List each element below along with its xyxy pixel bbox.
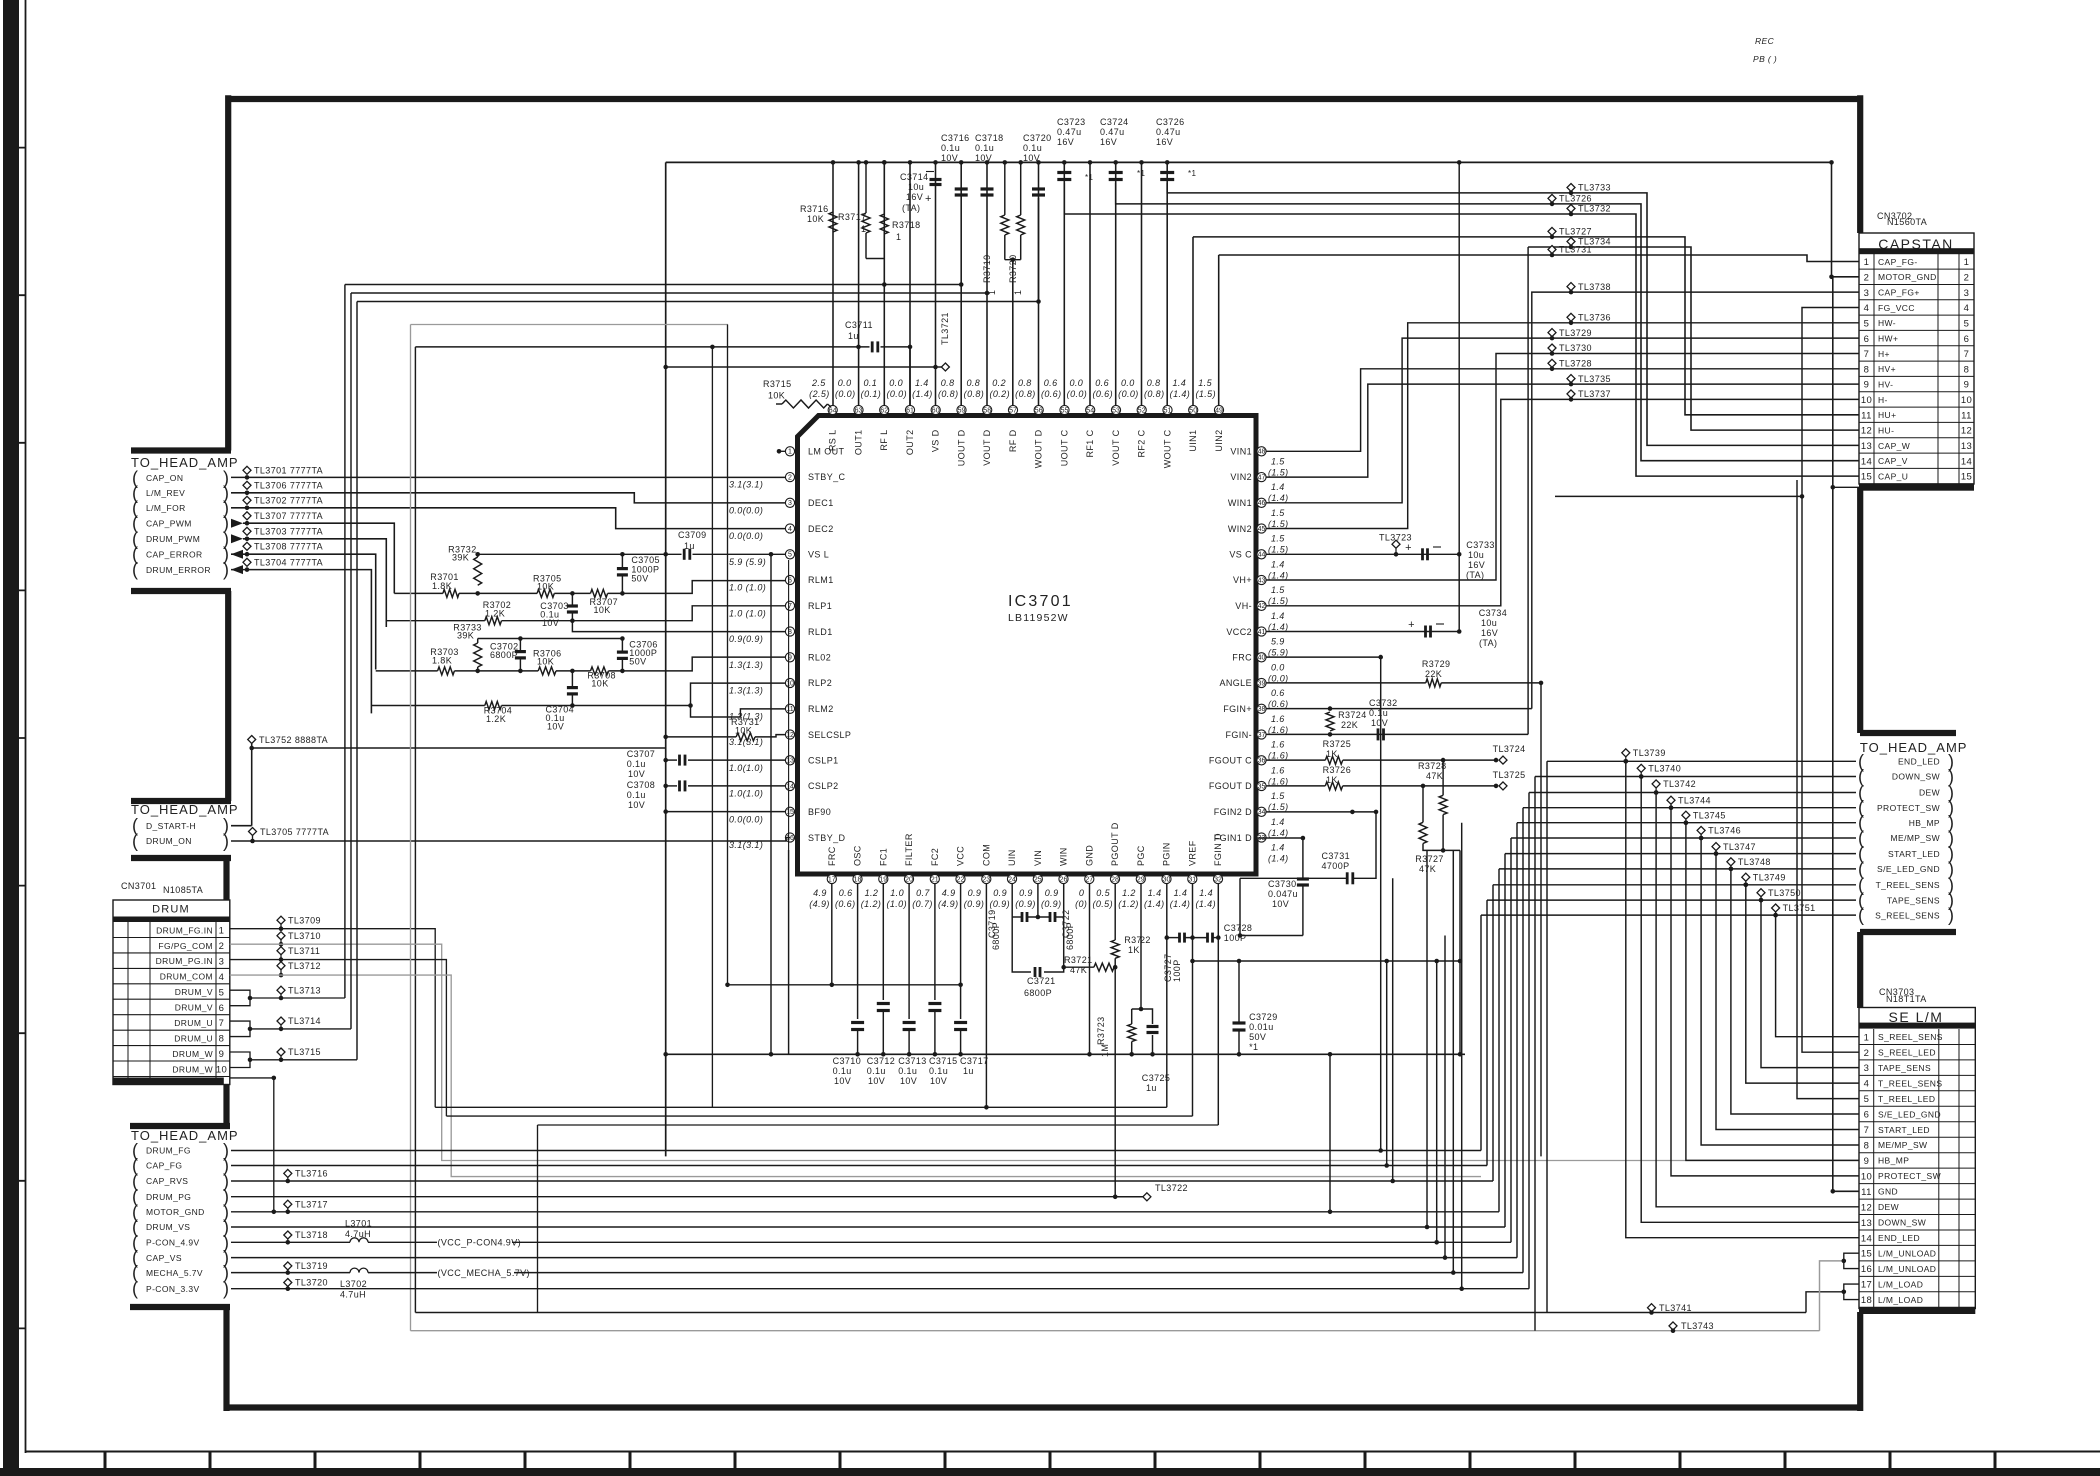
test point TL3707 xyxy=(243,512,251,520)
svg-text:5.9 (5.9): 5.9 (5.9) xyxy=(729,557,766,567)
test point TL3745 xyxy=(1682,811,1690,819)
connector CAPSTAN title bar xyxy=(1859,248,1974,254)
main border stub above TO_HEAD_AMP 4 xyxy=(1860,730,1956,736)
svg-text:1: 1 xyxy=(1864,257,1870,268)
svg-text:10: 10 xyxy=(786,680,794,687)
connector DRUM row 8 DRUM_U xyxy=(113,1045,230,1047)
wire pin 58 column to top bus xyxy=(986,162,988,405)
svg-text:4: 4 xyxy=(1864,1079,1870,1090)
svg-text:RL02: RL02 xyxy=(808,653,831,663)
wire C3731 left drop xyxy=(1239,878,1241,935)
svg-text:CAP_FG: CAP_FG xyxy=(146,1161,182,1171)
wire supply riser C3733 C3734 xyxy=(1458,162,1460,631)
svg-text:56: 56 xyxy=(1035,407,1043,414)
IC3701 pin 58 VOUT D xyxy=(983,405,992,414)
svg-text:50V: 50V xyxy=(629,657,646,667)
svg-text:12: 12 xyxy=(1961,426,1972,437)
svg-text:1u: 1u xyxy=(848,331,859,341)
wire R3723 C3725 bracket xyxy=(1132,1009,1153,1024)
svg-text:2: 2 xyxy=(1864,272,1870,283)
left ruler tick 2 xyxy=(3,294,26,296)
svg-text:1.5: 1.5 xyxy=(1271,534,1285,544)
IC3701 pin 11 RLM2 xyxy=(785,704,794,713)
svg-text:*1: *1 xyxy=(1085,173,1094,182)
test point TL3740 xyxy=(1637,764,1645,772)
svg-text:S_REEL_SENS: S_REEL_SENS xyxy=(1878,1032,1943,1042)
svg-text:TL3723: TL3723 xyxy=(1379,533,1412,543)
svg-text:(0.6): (0.6) xyxy=(1092,389,1113,399)
svg-text:DRUM_V: DRUM_V xyxy=(175,1003,213,1013)
svg-text:4.7uH: 4.7uH xyxy=(345,1229,371,1239)
svg-text:IC3701: IC3701 xyxy=(1008,593,1073,610)
svg-text:1.4: 1.4 xyxy=(1148,888,1162,898)
svg-text:SELCSLP: SELCSLP xyxy=(808,730,851,740)
wire DEW left drop xyxy=(1528,793,1530,1289)
svg-text:10V: 10V xyxy=(547,721,564,731)
svg-text:DRUM_ON: DRUM_ON xyxy=(146,836,192,846)
wire VS L net row xyxy=(478,553,682,555)
resistor R3715 10K xyxy=(782,400,828,408)
svg-text:MOTOR_GND: MOTOR_GND xyxy=(1878,272,1937,282)
test point TL3749 xyxy=(1742,873,1750,881)
connector SE L/M row 9 HB_MP xyxy=(1859,1167,1975,1169)
wire START_LED row run xyxy=(1505,853,1856,855)
svg-text:C3730: C3730 xyxy=(1268,879,1297,889)
wire P-CON_4.9V run with L3701 xyxy=(231,1241,350,1243)
svg-text:GND: GND xyxy=(1084,845,1094,866)
test point TL3746 xyxy=(1697,826,1705,834)
svg-text:16V: 16V xyxy=(1156,137,1173,147)
svg-text:(1.6): (1.6) xyxy=(1268,751,1289,761)
svg-text:*1: *1 xyxy=(1188,169,1197,178)
svg-text:(1.4): (1.4) xyxy=(1268,622,1289,632)
svg-text:TL3745: TL3745 xyxy=(1693,810,1726,820)
wire pin28 column xyxy=(1114,884,1116,940)
svg-text:4: 4 xyxy=(219,972,225,983)
test point TL3736 xyxy=(1567,313,1575,321)
svg-text:TL3718: TL3718 xyxy=(295,1230,328,1240)
svg-text:CAP_VS: CAP_VS xyxy=(146,1253,182,1263)
svg-text:C3705: C3705 xyxy=(631,555,660,565)
svg-text:50V: 50V xyxy=(1249,1032,1266,1042)
svg-text:3: 3 xyxy=(1864,1063,1870,1074)
svg-text:TL3719: TL3719 xyxy=(295,1261,328,1271)
wire top bus right drop to MOTOR_GND xyxy=(1831,162,1833,276)
wire T_REEL_SENS left drop xyxy=(1492,885,1494,1181)
wire pin 59 column to top bus xyxy=(960,162,962,405)
svg-text:T_REEL_LED: T_REEL_LED xyxy=(1878,1094,1935,1104)
resistor R3705 10K xyxy=(537,589,554,597)
wire DRUM U net column xyxy=(350,293,352,1029)
svg-text:GND: GND xyxy=(1878,1187,1898,1197)
svg-text:16V: 16V xyxy=(906,192,923,202)
svg-text:HB_MP: HB_MP xyxy=(1878,1156,1909,1166)
IC3701 pin 56 WOUT D xyxy=(1034,405,1043,414)
svg-text:1.0 (1.0): 1.0 (1.0) xyxy=(729,583,766,593)
svg-text:(1.5): (1.5) xyxy=(1268,519,1289,529)
svg-text:16V: 16V xyxy=(1057,137,1074,147)
IC3701 pin 63 OUT1 xyxy=(854,405,863,414)
IC3701 pin 25 VIN xyxy=(1033,874,1042,883)
svg-text:+: + xyxy=(925,193,932,205)
svg-text:DRUM_COM: DRUM_COM xyxy=(160,972,213,982)
resistor R3716 10K xyxy=(829,212,837,232)
connector SE L/M row 3 TAPE_SENS xyxy=(1859,1074,1975,1076)
wire pin33 FGIN1 D tap xyxy=(1301,836,1306,841)
wire R3717 R3718 join xyxy=(866,258,884,260)
main border right edge lower xyxy=(1857,1312,1863,1411)
svg-text:TL3751: TL3751 xyxy=(1783,903,1816,913)
svg-text:LB11952W: LB11952W xyxy=(1008,612,1069,624)
connector CAPSTAN row 2 MOTOR_GND xyxy=(1859,284,1974,286)
wire DRUM_PG long run to TL3722 xyxy=(231,1196,1143,1198)
svg-text:54: 54 xyxy=(1086,407,1094,414)
svg-text:RF1 C: RF1 C xyxy=(1085,429,1095,457)
wire DRUM row3 net xyxy=(230,960,447,1117)
svg-text:FRC: FRC xyxy=(827,846,837,866)
IC3701 pin 40 FRC xyxy=(1257,653,1266,662)
svg-text:FGIN2 D: FGIN2 D xyxy=(1214,807,1252,817)
svg-text:47K: 47K xyxy=(1419,864,1436,874)
svg-text:PGC: PGC xyxy=(1136,845,1146,866)
resistor R3725 1K xyxy=(1325,756,1342,764)
wire pin 63 column to top bus xyxy=(858,162,860,405)
test point TL3723 xyxy=(1392,540,1400,548)
svg-text:+: + xyxy=(1405,542,1412,554)
svg-text:7: 7 xyxy=(1964,349,1970,360)
left ruler tick 1 xyxy=(3,147,26,149)
svg-text:10K: 10K xyxy=(594,605,611,615)
svg-text:TL3743: TL3743 xyxy=(1681,1321,1714,1331)
svg-text:(TA): (TA) xyxy=(902,203,920,213)
svg-text:8: 8 xyxy=(1864,364,1870,375)
resistor R3720 1 xyxy=(1017,215,1025,235)
wire R3721 row xyxy=(1064,966,1094,968)
svg-text:(0.9): (0.9) xyxy=(964,899,985,909)
svg-text:VIN1: VIN1 xyxy=(1230,447,1252,457)
wire MECHA_5.7V run with L3702 xyxy=(231,1272,350,1274)
svg-text:TL3742: TL3742 xyxy=(1663,779,1696,789)
svg-text:59: 59 xyxy=(958,407,966,414)
test point TL3747 xyxy=(1712,843,1720,851)
svg-text:(1.4): (1.4) xyxy=(1268,854,1289,864)
wire CAP_FG- net pin49 to CAPSTAN 1 xyxy=(1219,255,1859,262)
svg-text:6800P: 6800P xyxy=(490,650,518,660)
wire DRUM W net link xyxy=(281,1059,357,1061)
svg-text:WIN1: WIN1 xyxy=(1228,498,1252,508)
svg-text:18: 18 xyxy=(854,876,862,883)
svg-text:4.9: 4.9 xyxy=(813,888,827,898)
test point TL3734 xyxy=(1567,238,1575,246)
svg-text:*1: *1 xyxy=(1249,1042,1258,1052)
IC3701 pin 12 SELCSLP xyxy=(785,730,794,739)
IC3701 pin 43 VH+ xyxy=(1257,575,1266,584)
svg-text:0.7: 0.7 xyxy=(916,888,930,898)
test point TL3732 xyxy=(1567,205,1575,213)
svg-text:FGOUT C: FGOUT C xyxy=(1209,756,1252,766)
test point TL3715 xyxy=(277,1048,285,1056)
svg-text:DRUM_U: DRUM_U xyxy=(174,1034,213,1044)
svg-text:TL3730: TL3730 xyxy=(1559,343,1592,353)
svg-text:63: 63 xyxy=(855,407,863,414)
resistor R3707 10K xyxy=(591,589,608,597)
wire C3705 column xyxy=(621,554,623,568)
svg-text:VS L: VS L xyxy=(808,550,829,560)
test point TL3703 xyxy=(243,527,251,535)
bottom ruler tick 10 xyxy=(1049,1452,1052,1470)
svg-text:0.047u: 0.047u xyxy=(1268,889,1298,899)
wire DRUM_FG long run xyxy=(231,1150,1481,1152)
svg-text:): ) xyxy=(1948,905,1954,925)
svg-text:1.6: 1.6 xyxy=(1271,740,1285,750)
svg-text:1.2K: 1.2K xyxy=(486,714,506,724)
svg-text:1K: 1K xyxy=(1128,945,1140,955)
svg-text:1.5: 1.5 xyxy=(1271,791,1285,801)
main border stub above TO_HEAD_AMP 1 xyxy=(131,447,231,453)
svg-text:(1.4): (1.4) xyxy=(1268,570,1289,580)
svg-text:10V: 10V xyxy=(941,153,958,163)
IC3701 pin 5 VS L xyxy=(785,550,794,559)
svg-text:TL3705 7777TA: TL3705 7777TA xyxy=(260,827,329,837)
capacitor C3722 6800P xyxy=(1049,912,1052,922)
svg-text:10V: 10V xyxy=(1371,718,1388,728)
svg-text:1.2: 1.2 xyxy=(1122,888,1136,898)
IC3701 pin 16 STBY_D xyxy=(785,833,794,842)
svg-text:VCC2: VCC2 xyxy=(1226,627,1252,637)
connector SE L/M row 13 DOWN_SW xyxy=(1859,1229,1975,1231)
wire HB_MP left drop xyxy=(1516,823,1518,1258)
svg-text:10: 10 xyxy=(1861,395,1872,406)
test point TL3712 xyxy=(277,962,285,970)
svg-text:TL3708 7777TA: TL3708 7777TA xyxy=(254,541,323,551)
resistor R3727 47K xyxy=(1419,822,1427,843)
connector DRUM bottom bar xyxy=(113,1078,224,1085)
wire pin61 column branch xyxy=(909,347,911,406)
capacitor C3706 1000P 50V xyxy=(617,650,628,653)
svg-text:0.9: 0.9 xyxy=(993,888,1007,898)
svg-text:0.1u: 0.1u xyxy=(929,1066,948,1076)
bottom ruler tick 8 xyxy=(839,1452,842,1470)
inductor L3701 4.7uH xyxy=(350,1238,368,1243)
IC3701 pin 29 PGC xyxy=(1136,874,1145,883)
connector SE L/M row 16 L/M_UNLOAD xyxy=(1859,1275,1975,1277)
IC3701 pin 10 RLP2 xyxy=(785,678,794,687)
svg-text:(1.5): (1.5) xyxy=(1268,545,1289,555)
svg-text:17: 17 xyxy=(1861,1280,1872,1291)
IC3701 pin 61 OUT2 xyxy=(905,405,914,414)
connector SE L/M column lines xyxy=(1873,1029,1875,1307)
svg-text:UIN1: UIN1 xyxy=(1188,430,1198,452)
test point TL3738 xyxy=(1567,283,1575,291)
svg-text:21: 21 xyxy=(931,876,939,883)
svg-text:FGOUT D: FGOUT D xyxy=(1209,781,1252,791)
svg-text:DRUM_PG: DRUM_PG xyxy=(146,1192,191,1202)
main border stub below TO_HEAD_AMP 1 xyxy=(131,588,231,594)
svg-text:0.0: 0.0 xyxy=(889,378,903,388)
IC3701 pin 35 FGOUT D xyxy=(1257,781,1266,790)
svg-text:(1.5): (1.5) xyxy=(1268,596,1289,606)
svg-text:TL3741: TL3741 xyxy=(1659,1303,1692,1313)
svg-text:26: 26 xyxy=(1060,876,1068,883)
wire C3703 to pin8 xyxy=(572,621,785,632)
svg-text:(0.0): (0.0) xyxy=(1067,389,1088,399)
capacitor C3704 0.1u 10V xyxy=(567,686,578,689)
wire pin 55 column to top bus xyxy=(1063,162,1065,405)
wire DOWN_SW left drop xyxy=(1534,777,1536,1331)
wire pin 50 column to HU+ wire xyxy=(1192,237,1194,406)
connector CAPSTAN column lines xyxy=(1873,254,1875,484)
connector CAPSTAN row 13 CAP_W xyxy=(1859,452,1974,454)
svg-text:1.4: 1.4 xyxy=(1271,559,1285,569)
left ruler tick 4 xyxy=(3,589,26,591)
svg-text:R3717: R3717 xyxy=(838,212,867,222)
wire pin27 column to bus xyxy=(1089,884,1091,1055)
test point TL3724 xyxy=(1499,756,1507,764)
svg-text:TL3717: TL3717 xyxy=(295,1199,328,1209)
test point TL3729 xyxy=(1548,329,1556,337)
svg-text:TL3712: TL3712 xyxy=(288,961,321,971)
IC3701 pin 37 FGIN- xyxy=(1257,730,1266,739)
svg-text:C3734: C3734 xyxy=(1479,608,1508,618)
resistor R3722 1K xyxy=(1111,940,1119,958)
IC3701 pin 27 GND xyxy=(1085,874,1094,883)
wire R3704 row xyxy=(371,705,484,707)
wire gray top run xyxy=(411,324,729,326)
svg-text:DEC1: DEC1 xyxy=(808,498,834,508)
connector SE L/M row 4 T_REEL_SENS xyxy=(1859,1090,1975,1092)
bottom ruler tick 1 xyxy=(104,1452,107,1470)
svg-text:1: 1 xyxy=(861,224,866,234)
svg-text:61: 61 xyxy=(906,407,914,414)
capacitor C3718 0.1u 10V xyxy=(981,187,994,190)
test point TL3718 xyxy=(284,1231,292,1239)
wire gray riser x411 xyxy=(410,325,412,1331)
wire C3731 row xyxy=(1240,877,1347,879)
svg-text:(0.8): (0.8) xyxy=(1015,389,1036,399)
bottom ruler tick 2 xyxy=(209,1452,212,1470)
svg-text:(0.8): (0.8) xyxy=(938,389,959,399)
arrow CAP_PWM xyxy=(231,519,243,528)
svg-text:0.1u: 0.1u xyxy=(898,1066,917,1076)
svg-text:TL3733: TL3733 xyxy=(1578,183,1611,193)
wire S/E_LED_GND row run xyxy=(1499,868,1856,870)
wire CAP_VS long run xyxy=(231,1257,1517,1259)
IC3701 pin 55 UOUT C xyxy=(1060,405,1069,414)
svg-text:1.6: 1.6 xyxy=(1271,765,1285,775)
svg-text:(0.1): (0.1) xyxy=(861,389,882,399)
svg-text:(4.9): (4.9) xyxy=(809,899,830,909)
svg-text:R3727: R3727 xyxy=(1415,854,1444,864)
IC3701 pin 53 VOUT C xyxy=(1111,405,1120,414)
resistor R3704 1.2K xyxy=(485,702,502,710)
svg-text:TAPE_SENS: TAPE_SENS xyxy=(1887,895,1940,905)
IC3701 pin 41 VCC2 xyxy=(1257,627,1266,636)
svg-text:1.8K: 1.8K xyxy=(432,581,452,591)
IC3701 pin 38 FGIN+ xyxy=(1257,704,1266,713)
svg-text:1.3(1.3): 1.3(1.3) xyxy=(729,660,763,670)
svg-text:VOUT D: VOUT D xyxy=(982,429,992,465)
wire C3702 column xyxy=(519,639,521,652)
connector CAPSTAN row 11 HU+ xyxy=(1859,421,1974,423)
wire C3703 column xyxy=(571,593,573,606)
wire END_LED row run xyxy=(1547,760,1856,762)
svg-text:10u: 10u xyxy=(1481,618,1497,628)
svg-text:RS L: RS L xyxy=(828,430,838,452)
wire DRUM V net top run xyxy=(345,284,961,286)
svg-text:10K: 10K xyxy=(591,679,608,689)
svg-text:C3707: C3707 xyxy=(627,749,656,759)
svg-text:3: 3 xyxy=(1864,288,1870,299)
svg-text:0.6: 0.6 xyxy=(839,888,853,898)
svg-text:39K: 39K xyxy=(457,631,474,641)
svg-text:OSC: OSC xyxy=(853,845,863,866)
svg-text:(4.9): (4.9) xyxy=(938,899,959,909)
bottom ruler tick 13 xyxy=(1364,1452,1367,1470)
svg-text:DRUM_FG: DRUM_FG xyxy=(146,1146,191,1156)
svg-text:7: 7 xyxy=(1864,1125,1870,1136)
wire S/E_LED_GND riser to SE L/M xyxy=(1731,869,1859,1114)
capacitor C3712 0.1u 10V xyxy=(877,1002,890,1005)
capacitor C3705 1000P 50V xyxy=(617,567,628,570)
test point TL3737 xyxy=(1567,390,1575,398)
left ruler tick 6 xyxy=(3,885,26,887)
svg-text:37: 37 xyxy=(1258,732,1266,739)
svg-text:RLM1: RLM1 xyxy=(808,575,834,585)
svg-text:1u: 1u xyxy=(1146,1083,1157,1093)
wire DRUM V net link xyxy=(281,997,345,999)
svg-text:(5.9): (5.9) xyxy=(1268,648,1289,658)
wire R3727 R3728 bottom join xyxy=(1423,815,1443,851)
svg-text:PROTECT_SW: PROTECT_SW xyxy=(1877,803,1940,813)
capacitor C3732 0.1u 10V xyxy=(1377,728,1380,740)
bottom ruler tick 9 xyxy=(944,1452,947,1470)
wire MECHA_5.7V continues xyxy=(514,1272,1523,1274)
IC3701 pin 28 PGOUT D xyxy=(1110,874,1119,883)
svg-text:TL3707 7777TA: TL3707 7777TA xyxy=(254,511,323,521)
wire DRUM row2 net gray xyxy=(230,944,1859,1160)
wire S_REEL_SENS row run xyxy=(1481,914,1856,916)
page frame bottom bar xyxy=(0,1468,2100,1476)
svg-text:HU-: HU- xyxy=(1878,425,1894,435)
IC3701 pin 57 RF D xyxy=(1008,405,1017,414)
wire below DRUM table drop xyxy=(230,1078,274,1212)
svg-text:22: 22 xyxy=(957,876,965,883)
IC3701 pin 32 FGIN D xyxy=(1213,874,1222,883)
IC3701 pin 20 FILTER xyxy=(904,874,913,883)
svg-text:C3729: C3729 xyxy=(1249,1012,1278,1022)
svg-text:TL3711: TL3711 xyxy=(288,946,320,956)
wire CAP_W net to CAPSTAN 13 xyxy=(1167,183,1859,445)
svg-text:PGOUT D: PGOUT D xyxy=(1110,822,1120,866)
wire pin 57 column xyxy=(1012,260,1014,406)
svg-text:S/E_LED_GND: S/E_LED_GND xyxy=(1878,1109,1941,1119)
svg-text:C3713: C3713 xyxy=(898,1056,927,1066)
inductor L3702 coil xyxy=(350,1268,368,1273)
svg-text:VH+: VH+ xyxy=(1233,575,1252,585)
wire CAP_RVS long run xyxy=(231,1180,1493,1182)
svg-text:1: 1 xyxy=(219,926,225,937)
IC3701 pin 8 RLD1 xyxy=(785,627,794,636)
capacitor C3724 0.47u 16V xyxy=(1109,171,1123,174)
svg-text:5.9: 5.9 xyxy=(1271,637,1285,647)
svg-text:TL3740: TL3740 xyxy=(1648,764,1681,774)
svg-text:C3724: C3724 xyxy=(1100,117,1129,127)
test point TL3741 xyxy=(1648,1304,1656,1312)
resistor R3719 1 xyxy=(1001,215,1009,235)
svg-text:39: 39 xyxy=(1258,680,1266,687)
wire pin42 VH- net to CAPSTAN 10 xyxy=(1266,399,1859,605)
svg-text:CAP_FG-: CAP_FG- xyxy=(1878,257,1918,267)
